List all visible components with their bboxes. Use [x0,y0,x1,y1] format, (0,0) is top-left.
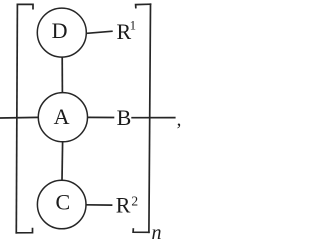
svg-text:A: A [54,104,70,129]
svg-text:2: 2 [131,194,138,209]
svg-text:B: B [117,105,132,130]
svg-text:R: R [116,193,131,218]
svg-text:D: D [52,18,68,43]
svg-text:n: n [152,222,162,240]
svg-text:C: C [56,189,71,214]
svg-text:,: , [177,110,182,131]
svg-text:1: 1 [130,18,136,32]
